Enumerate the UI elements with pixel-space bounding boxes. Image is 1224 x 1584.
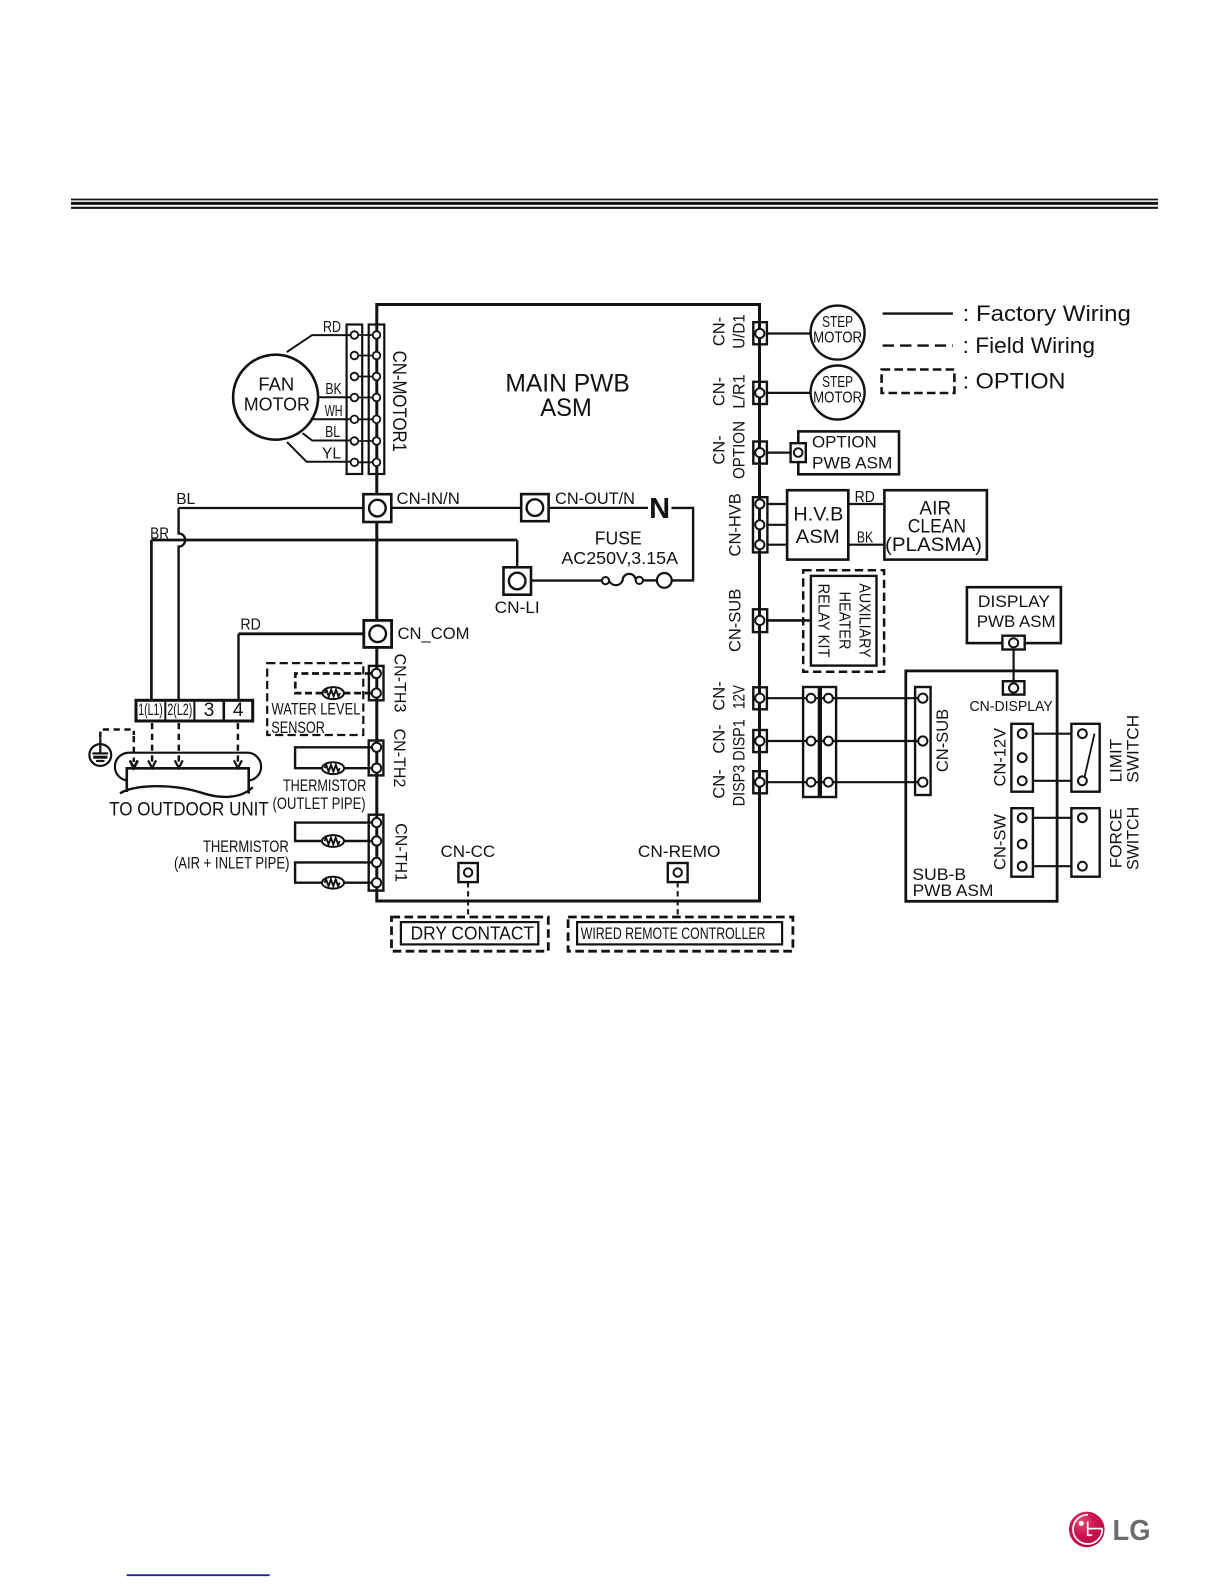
svg-text:BL: BL xyxy=(325,424,340,441)
connector CN-TH1 xyxy=(369,815,384,891)
svg-text:YL: YL xyxy=(322,446,341,463)
display pwb connector xyxy=(1002,636,1024,650)
fan motor circle xyxy=(233,355,318,440)
thermistor TH1b element xyxy=(322,877,344,889)
fan motor wire RD xyxy=(287,335,352,352)
wire HVB RD to air clean xyxy=(848,503,884,505)
svg-text:MOTOR: MOTOR xyxy=(244,394,310,414)
svg-text:RD: RD xyxy=(240,617,260,634)
main PWB ASM box xyxy=(377,305,760,902)
connector CN-OPTION xyxy=(753,442,767,464)
connector CN-MOTOR1 strip B xyxy=(369,325,385,475)
svg-text:TO OUTDOOR UNIT: TO OUTDOOR UNIT xyxy=(109,800,269,821)
svg-text:1(L1): 1(L1) xyxy=(138,701,163,719)
wire CN-LI up to BR line xyxy=(516,540,518,567)
water level sensor element xyxy=(323,687,344,699)
legend factory wiring line xyxy=(883,312,953,314)
svg-text:3: 3 xyxy=(204,700,215,721)
connector CN-SUB sub board xyxy=(915,687,931,795)
inter strip B xyxy=(821,687,836,797)
svg-text:PWB ASM: PWB ASM xyxy=(812,453,892,472)
svg-text:CN-: CN- xyxy=(711,435,729,464)
svg-text:CN-SUB: CN-SUB xyxy=(726,589,744,652)
svg-text:MOTOR: MOTOR xyxy=(813,390,862,407)
svg-text:(OUTLET PIPE): (OUTLET PIPE) xyxy=(273,794,366,813)
fan motor wire BK xyxy=(317,396,353,398)
svg-text:U/D1: U/D1 xyxy=(731,314,749,349)
svg-text:: Field Wiring: : Field Wiring xyxy=(963,333,1095,358)
fuse squiggle xyxy=(609,574,636,585)
svg-text:RELAY KIT: RELAY KIT xyxy=(814,584,831,658)
fan motor wire BL xyxy=(303,433,353,440)
dashed arrow from ground xyxy=(133,736,136,762)
DRY CONTACT inner box xyxy=(401,922,538,944)
svg-text:DISP1: DISP1 xyxy=(731,719,749,761)
svg-text:CN-REMO: CN-REMO xyxy=(638,842,721,861)
SUB-B PWB ASM box xyxy=(906,671,1057,901)
connector CN-12V sub board xyxy=(1011,724,1033,792)
option pwb stub connector xyxy=(791,443,806,462)
svg-text:AUXILIARY: AUXILIARY xyxy=(856,583,873,657)
svg-text:WIRED REMOTE CONTROLLER: WIRED REMOTE CONTROLLER xyxy=(581,924,766,943)
svg-text:RD: RD xyxy=(855,489,875,506)
svg-text:CN-12V: CN-12V xyxy=(992,728,1010,787)
svg-text:OPTION: OPTION xyxy=(812,432,877,451)
WIRED REMOTE CONTROLLER inner box xyxy=(577,922,782,944)
svg-text:CN-: CN- xyxy=(711,724,729,753)
wire CN-SW to force switch top xyxy=(1022,817,1082,819)
inter strip A xyxy=(803,687,819,797)
svg-text:CN-MOTOR1: CN-MOTOR1 xyxy=(388,351,409,452)
svg-text:CN_COM: CN_COM xyxy=(398,624,470,643)
wire N to fuse corner xyxy=(672,508,694,581)
limit switch blade xyxy=(1085,734,1095,777)
svg-text:RD: RD xyxy=(323,319,341,336)
dashed arrow from terminal 4 xyxy=(237,723,240,762)
ground dashed link xyxy=(100,730,134,738)
top rule xyxy=(71,200,1158,208)
OPTION PWB ASM box xyxy=(798,431,899,474)
svg-text:PWB ASM: PWB ASM xyxy=(913,881,994,900)
AIR CLEAN box xyxy=(884,490,987,559)
connector CN-TH2 xyxy=(369,741,384,776)
svg-text:CN-: CN- xyxy=(711,681,729,710)
wire CN-SW to force switch bottom xyxy=(1022,865,1082,867)
svg-text:DISP3: DISP3 xyxy=(731,765,749,807)
connector CN-MOTOR1 strip A xyxy=(347,325,363,475)
svg-text:FUSE: FUSE xyxy=(595,528,642,548)
svg-text:CN-LI: CN-LI xyxy=(495,598,540,617)
svg-text:AC250V,3.15A: AC250V,3.15A xyxy=(561,548,678,568)
svg-text:OPTION: OPTION xyxy=(731,421,749,479)
connector CN-HVB xyxy=(753,497,767,552)
thermistor TH2 wires xyxy=(295,747,377,768)
connector CN-TH3 xyxy=(369,666,384,700)
connector CN-12V main xyxy=(753,687,767,709)
wire CN-12V sub to limit switch top xyxy=(1022,733,1082,735)
legend field wiring line xyxy=(883,344,953,346)
force switch box xyxy=(1071,808,1099,877)
connector CN-SW sub board xyxy=(1011,808,1033,877)
svg-text:BK: BK xyxy=(857,529,874,546)
connector CN-OUT/N xyxy=(521,494,548,521)
wire fuse to CN-LI xyxy=(531,579,602,581)
wire CN-L/R1 to step motor 2 xyxy=(767,392,811,394)
svg-text:(AIR + INLET PIPE): (AIR + INLET PIPE) xyxy=(174,854,290,873)
footer blue line xyxy=(127,1574,270,1576)
DISPLAY PWB ASM box xyxy=(967,587,1061,643)
aux heater relay kit dashed box xyxy=(803,570,884,672)
svg-text:WATER LEVEL: WATER LEVEL xyxy=(272,700,361,719)
svg-text:ASM: ASM xyxy=(540,394,592,422)
water level sensor dashed wires xyxy=(295,674,372,694)
wire fuse middle xyxy=(643,579,657,581)
LG logo badge xyxy=(1069,1512,1105,1548)
wire RD to CN_COM xyxy=(239,632,364,635)
terminal block TB1 xyxy=(136,700,253,721)
svg-text:BK: BK xyxy=(325,381,342,398)
wire CN-DISP1 row xyxy=(767,740,923,742)
wire CN-12V sub to limit switch bottom xyxy=(1022,780,1082,782)
connector CN-DISP3 xyxy=(753,771,767,793)
svg-text:CN-IN/N: CN-IN/N xyxy=(397,489,460,508)
svg-text:HEATER: HEATER xyxy=(836,592,853,650)
wires CN-HVB to HVB asm xyxy=(767,503,787,505)
svg-text:LG: LG xyxy=(1113,1515,1151,1547)
dashed arrow from terminal 1(L1) xyxy=(151,723,154,762)
wire CN-REMO dashed xyxy=(677,882,679,917)
svg-text:N: N xyxy=(649,493,670,525)
thermistor TH2 element xyxy=(322,762,344,774)
svg-text:DISPLAY: DISPLAY xyxy=(978,592,1050,611)
fuse small circle left xyxy=(602,577,609,584)
outdoor cable stadium xyxy=(115,753,261,781)
svg-text:CN-: CN- xyxy=(711,317,729,346)
svg-text:CN-TH1: CN-TH1 xyxy=(392,823,410,882)
svg-text:2(L2): 2(L2) xyxy=(167,701,192,719)
wire BL vertical with hop over BR xyxy=(179,508,186,700)
svg-text:THERMISTOR: THERMISTOR xyxy=(283,776,366,795)
connector CN-SUB main xyxy=(753,609,767,632)
svg-text:CN-HVB: CN-HVB xyxy=(726,493,744,556)
svg-text:SWITCH: SWITCH xyxy=(1123,807,1142,870)
aux heater relay kit inner box xyxy=(811,576,877,666)
svg-text:CN-TH3: CN-TH3 xyxy=(390,654,408,713)
wire BR horizontal xyxy=(151,539,517,542)
svg-text:MOTOR: MOTOR xyxy=(813,330,862,347)
svg-text:FAN: FAN xyxy=(258,375,294,395)
svg-text:PWB ASM: PWB ASM xyxy=(977,612,1056,631)
CN-MOTOR1 pin tie lines xyxy=(350,335,381,462)
DRY CONTACT option dashed box xyxy=(392,917,549,951)
connector CN-DISP1 xyxy=(753,730,767,752)
svg-text:STEP: STEP xyxy=(822,314,853,331)
svg-text:CN-CC: CN-CC xyxy=(440,842,495,861)
svg-text:: Factory Wiring: : Factory Wiring xyxy=(963,301,1131,326)
wire HVB BK to air clean xyxy=(848,544,884,546)
wire display to CN-DISPLAY xyxy=(1012,650,1014,682)
svg-text:ASM: ASM xyxy=(796,526,840,548)
thermistor TH1a wires xyxy=(295,823,377,841)
wire RD vertical to terminal 4 xyxy=(237,634,239,701)
connector CN-DISPLAY xyxy=(1003,681,1025,694)
thermistor TH1b wires xyxy=(295,862,377,882)
legend option dashed rect xyxy=(882,370,955,394)
svg-text:CN-SW: CN-SW xyxy=(992,814,1010,870)
svg-text:CN-OUT/N: CN-OUT/N xyxy=(555,489,635,508)
step motor 1 xyxy=(811,306,865,360)
wire CN-OUT/N to N xyxy=(549,507,648,509)
svg-text:12V: 12V xyxy=(731,685,749,709)
svg-text:4: 4 xyxy=(233,700,244,721)
connector CN_COM xyxy=(364,620,392,647)
svg-text:WH: WH xyxy=(325,403,343,420)
wire BL horizontal to CN-IN/N xyxy=(179,507,364,509)
svg-text:DRY CONTACT: DRY CONTACT xyxy=(411,923,534,943)
wire CN-SUB to aux kit xyxy=(767,619,811,622)
wire CN-DISP3 row xyxy=(767,781,923,783)
svg-text:SENSOR: SENSOR xyxy=(271,718,325,737)
svg-text:STEP: STEP xyxy=(822,374,853,391)
connector CN-CC xyxy=(458,863,477,882)
connector CN-LI xyxy=(504,567,532,594)
svg-text:CN-SUB: CN-SUB xyxy=(934,709,952,772)
connector CN-IN/N xyxy=(363,494,391,522)
svg-text:BR: BR xyxy=(150,526,169,543)
inner cable rect xyxy=(127,768,249,793)
WIRED REMOTE CONTROLLER option dashed box xyxy=(568,917,793,951)
svg-text:: OPTION: : OPTION xyxy=(963,369,1066,394)
svg-text:CN-: CN- xyxy=(711,769,729,798)
water level sensor dashed box xyxy=(267,663,363,735)
connector CN-L/R1 xyxy=(753,382,767,404)
connector CN-U/D1 xyxy=(753,322,767,344)
fuse small circle right xyxy=(636,577,643,584)
fuse big circle xyxy=(657,573,672,588)
svg-text:L/R1: L/R1 xyxy=(731,374,749,409)
svg-text:CN-DISPLAY: CN-DISPLAY xyxy=(970,699,1054,715)
limit switch box xyxy=(1071,724,1099,792)
CN-MOTOR1 pin circles xyxy=(351,331,381,466)
svg-text:CN-: CN- xyxy=(711,377,729,406)
fan motor wire YL xyxy=(287,442,352,462)
wire CN-CC dashed xyxy=(467,882,469,917)
wire CN-12V row xyxy=(767,697,923,699)
wire CN-OPTION to option pwb xyxy=(767,452,791,454)
svg-text:SWITCH: SWITCH xyxy=(1123,715,1142,783)
svg-text:BL: BL xyxy=(176,491,195,508)
svg-text:H.V.B: H.V.B xyxy=(793,503,843,525)
wire BR vertical to terminal 1 xyxy=(150,540,153,700)
wave line xyxy=(120,786,253,797)
wire CN-IN/N to CN-OUT/N xyxy=(391,507,521,509)
H.V.B ASM box xyxy=(787,490,848,559)
step motor 2 xyxy=(811,366,865,420)
svg-text:CN-TH2: CN-TH2 xyxy=(390,729,408,788)
fan motor wire WH xyxy=(313,418,353,420)
ground symbol xyxy=(89,738,111,766)
svg-text:(PLASMA): (PLASMA) xyxy=(885,534,982,556)
thermistor TH1a element xyxy=(322,835,344,847)
wire CN-U/D1 to step motor 1 xyxy=(767,332,811,334)
dashed arrow from terminal 2(L2) xyxy=(178,723,181,762)
connector CN-REMO xyxy=(668,863,688,882)
